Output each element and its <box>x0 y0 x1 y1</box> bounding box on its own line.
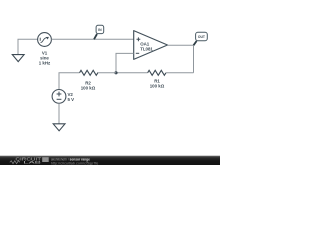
wire op-amp output to corner <box>168 44 194 46</box>
wire junction to R2 <box>97 72 116 74</box>
node junction <box>114 71 117 74</box>
label R1 <box>150 78 165 88</box>
svg-text:TL081: TL081 <box>140 46 153 51</box>
wire R1 right lead <box>166 72 194 74</box>
svg-text:IN: IN <box>98 28 102 32</box>
ground GND2 <box>53 124 65 131</box>
ground GND1 <box>12 55 24 62</box>
flag OUT <box>194 32 208 45</box>
svg-text:1 kHz: 1 kHz <box>39 61 51 66</box>
svg-text:http://circuitlab.com/c/5qp7fe: http://circuitlab.com/c/5qp7fe <box>51 161 99 165</box>
voltage source V1 <box>38 33 52 47</box>
label V2 <box>68 92 75 102</box>
label V1 <box>39 51 51 66</box>
svg-text:5 V: 5 V <box>68 97 75 102</box>
svg-text:LAB: LAB <box>23 160 42 165</box>
label R2 <box>81 80 96 90</box>
wire ground1 to V1 <box>18 39 38 54</box>
voltage source V2 <box>52 90 66 104</box>
svg-text:100 kΩ: 100 kΩ <box>150 83 165 88</box>
resistor R2 <box>80 70 98 75</box>
wire R1 to junction <box>116 72 148 74</box>
svg-text:OUT: OUT <box>198 35 206 39</box>
wire V1 to op-amp + input <box>51 38 133 40</box>
flag IN <box>94 25 104 39</box>
svg-text:100 kΩ: 100 kΩ <box>81 85 96 90</box>
wire R2 left lead to V2 <box>59 73 80 90</box>
resistor R1 <box>148 70 166 75</box>
op-amp OA1 <box>134 31 168 60</box>
wire junction up to op-amp - input <box>116 53 134 72</box>
wire V2 to ground2 <box>58 103 60 124</box>
wire feedback vertical right <box>193 45 195 73</box>
